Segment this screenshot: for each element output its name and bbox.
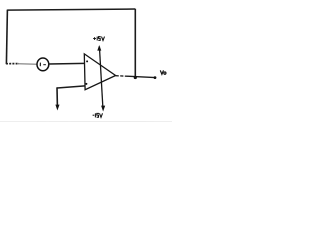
wire source left horizontal xyxy=(6,63,19,65)
label vo xyxy=(160,70,166,74)
plus mark inside source xyxy=(39,63,41,67)
op-amp U1 triangle xyxy=(84,54,115,90)
junction node dot xyxy=(134,76,137,79)
output terminal dot xyxy=(154,76,157,79)
label +15V xyxy=(93,37,104,41)
wire output horizontal xyxy=(116,75,127,78)
minus mark inside source xyxy=(43,64,46,66)
ground arrowhead down xyxy=(55,105,59,111)
wire ground drop vertical xyxy=(56,87,58,106)
wire feedback vertical right xyxy=(134,9,136,78)
label -15V xyxy=(93,113,103,117)
noninverting input dot xyxy=(85,83,87,85)
wire left vertical xyxy=(6,10,7,65)
-15V arrowhead down xyxy=(101,106,105,112)
wire source to inverting input xyxy=(49,62,85,65)
supply line vertical through op-amp xyxy=(99,47,103,109)
inverting input dot xyxy=(86,60,88,62)
+15V arrowhead up xyxy=(97,45,101,51)
voltage source VS circle xyxy=(37,58,49,71)
wire (faint scan artifact line) xyxy=(0,120,172,122)
wire top feedback horizontal xyxy=(7,9,135,10)
wire noninverting input horizontal xyxy=(57,86,85,88)
